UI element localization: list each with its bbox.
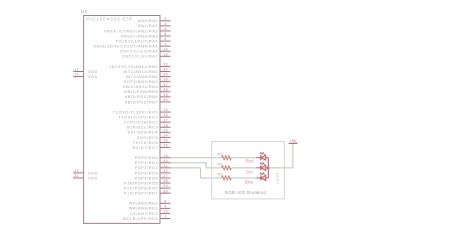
svg-text:24: 24 [163, 134, 168, 138]
U1 power pins VDD/VSS [73, 68, 98, 181]
svg-text:PSP4/RD4: PSP4/RD4 [135, 176, 159, 180]
svg-text:8: 8 [164, 199, 166, 203]
svg-text:14: 14 [163, 47, 168, 51]
U1 port E pins [123, 199, 171, 220]
svg-text:37: 37 [163, 83, 168, 87]
svg-text:SCK/SCL/RC3: SCK/SCL/RC3 [126, 126, 158, 130]
svg-text:RGB LED Breakout: RGB LED Breakout [225, 190, 267, 195]
svg-text:PSP0/RD0: PSP0/RD0 [135, 156, 158, 160]
svg-text:27: 27 [163, 174, 168, 178]
svg-text:PSP1/RD1: PSP1/RD1 [135, 161, 158, 165]
svg-text:33: 33 [163, 63, 168, 67]
U1 port C pins [113, 108, 171, 150]
IC U1 PIC18F4520 body [84, 16, 160, 224]
svg-text:T1OSI/CCP2/RC1: T1OSI/CCP2/RC1 [119, 115, 159, 119]
LED LED1 element Red [256, 153, 268, 161]
junction [267, 167, 270, 170]
svg-text:P1B/PSP5/RD5: P1B/PSP5/RD5 [124, 181, 158, 185]
svg-text:RX/DT/RC7: RX/DT/RC7 [132, 146, 158, 150]
svg-text:P1D/PSP7/RD7: P1D/PSP7/RD7 [124, 192, 158, 196]
svg-text:R2: R2 [217, 162, 222, 166]
svg-text:KBI0/AN11/RB4: KBI0/AN11/RB4 [123, 85, 158, 89]
wire net RD1 to R2 [170, 163, 221, 168]
svg-text:2: 2 [164, 17, 166, 21]
wire net RD2 to R3 [170, 168, 221, 178]
breakout board outline [212, 142, 285, 199]
svg-text:VREF+/AN3/RA3: VREF+/AN3/RA3 [121, 34, 158, 38]
svg-text:18: 18 [163, 123, 168, 127]
svg-text:R1: R1 [217, 152, 222, 156]
+5V supply symbol [289, 142, 298, 144]
U1 port B pins [110, 63, 170, 105]
svg-text:INT2/AN8/RB2: INT2/AN8/RB2 [126, 75, 159, 79]
svg-text:12: 12 [74, 73, 79, 77]
svg-text:CCP1/P1A/RC2: CCP1/P1A/RC2 [124, 121, 159, 125]
svg-text:T1OSO/T13CKI/RC0: T1OSO/T13CKI/RC0 [113, 110, 159, 114]
svg-text:36: 36 [163, 78, 168, 82]
svg-text:RD/AN5/RE0: RD/AN5/RE0 [130, 202, 159, 206]
svg-text:CCP2/AN9/RB3: CCP2/AN9/RB3 [124, 80, 159, 84]
svg-text:SDI/SDA/RC4: SDI/SDA/RC4 [127, 131, 158, 135]
svg-text:34: 34 [163, 68, 168, 72]
LED LED1 element Grn [256, 163, 268, 171]
wire net R2 to LED [231, 167, 256, 169]
svg-text:LED1: LED1 [274, 172, 279, 183]
svg-text:31: 31 [74, 169, 79, 173]
svg-text:21: 21 [163, 164, 168, 168]
wire net anode to +5V [268, 144, 293, 168]
svg-text:Grn: Grn [246, 170, 254, 175]
svg-text:VDD: VDD [88, 70, 98, 74]
svg-text:KBI1/PGM/RB5: KBI1/PGM/RB5 [124, 90, 158, 94]
svg-text:INT0/FLT0/AN12/RB0: INT0/FLT0/AN12/RB0 [110, 65, 158, 69]
svg-text:OSC1/CLKI/RA7: OSC1/CLKI/RA7 [122, 55, 158, 59]
svg-text:38: 38 [163, 88, 168, 92]
svg-text:CS/AN7/RE2: CS/AN7/RE2 [130, 212, 158, 216]
svg-text:1: 1 [164, 215, 166, 219]
svg-text:10: 10 [163, 210, 168, 214]
svg-text:U1: U1 [81, 9, 88, 14]
wire net R1 to LED [231, 157, 256, 159]
svg-text:17: 17 [163, 118, 168, 122]
svg-text:AN1/RA1: AN1/RA1 [138, 24, 158, 28]
svg-text:28: 28 [163, 179, 168, 183]
svg-text:AN0/RA0: AN0/RA0 [138, 19, 158, 23]
svg-text:PSP2/RD2: PSP2/RD2 [135, 166, 158, 170]
svg-text:VSS: VSS [88, 171, 98, 175]
svg-text:39: 39 [163, 93, 168, 97]
svg-text:PIC18F4520-E/P: PIC18F4520-E/P [86, 17, 133, 22]
svg-text:13: 13 [163, 52, 168, 56]
svg-text:4: 4 [164, 27, 166, 31]
svg-text:9: 9 [164, 204, 166, 208]
svg-text:26: 26 [163, 144, 168, 148]
svg-text:PSP3/RD3: PSP3/RD3 [135, 171, 158, 175]
svg-text:VREF-/CVREF/AN2/RA2: VREF-/CVREF/AN2/RA2 [104, 29, 158, 33]
svg-text:T0CKI/C1OUT/RA4: T0CKI/C1OUT/RA4 [116, 39, 159, 43]
svg-text:R3: R3 [217, 173, 222, 177]
U1 port A pins [93, 17, 170, 59]
LED LED1 element Blue [256, 173, 268, 181]
svg-text:11: 11 [74, 68, 78, 72]
svg-text:22: 22 [163, 169, 168, 173]
resistor R3 [222, 176, 232, 180]
svg-text:40: 40 [163, 98, 168, 102]
svg-text:23: 23 [163, 128, 168, 132]
resistor R2 [222, 166, 232, 170]
svg-text:MCLR/VPP/RE3: MCLR/VPP/RE3 [123, 217, 158, 221]
svg-text:WR/AN6/RE1: WR/AN6/RE1 [129, 207, 159, 211]
svg-text:20: 20 [163, 159, 168, 163]
svg-text:SS/HLVDIN/C2OUT/AN4/RA5: SS/HLVDIN/C2OUT/AN4/RA5 [93, 45, 158, 49]
svg-text:29: 29 [163, 184, 168, 188]
svg-text:19: 19 [163, 154, 168, 158]
svg-text:35: 35 [163, 73, 168, 77]
svg-text:SDO/RC5: SDO/RC5 [137, 136, 158, 140]
svg-text:KBI3/PGD/RB7: KBI3/PGD/RB7 [125, 100, 158, 104]
svg-text:+5V: +5V [289, 139, 297, 143]
svg-text:VSS: VSS [88, 75, 98, 79]
resistor R1 [222, 156, 232, 160]
svg-text:P1C/PSP6/RD6: P1C/PSP6/RD6 [124, 186, 158, 190]
svg-text:TX/CK/RC6: TX/CK/RC6 [133, 141, 158, 145]
svg-text:KBI2/PGC/RB6: KBI2/PGC/RB6 [125, 95, 158, 99]
svg-text:Red: Red [246, 159, 254, 164]
svg-text:VDD: VDD [88, 176, 98, 180]
svg-text:3: 3 [164, 22, 166, 26]
svg-text:6: 6 [164, 37, 166, 41]
svg-text:15: 15 [163, 108, 168, 112]
U1 port D pins [124, 154, 170, 196]
svg-text:OSC2/CLKO/RA6: OSC2/CLKO/RA6 [120, 50, 158, 54]
svg-text:Blue: Blue [245, 180, 254, 185]
svg-text:16: 16 [163, 113, 168, 117]
wire net RD0 to R1 [170, 157, 221, 159]
svg-text:5: 5 [164, 32, 166, 36]
svg-text:INT1/AN10/RB1: INT1/AN10/RB1 [123, 70, 158, 74]
wire net R3 to LED [231, 177, 256, 179]
svg-text:32: 32 [74, 174, 79, 178]
svg-text:30: 30 [163, 189, 168, 193]
svg-text:25: 25 [163, 139, 168, 143]
LED common anode wire [267, 158, 269, 178]
svg-text:7: 7 [164, 42, 166, 46]
